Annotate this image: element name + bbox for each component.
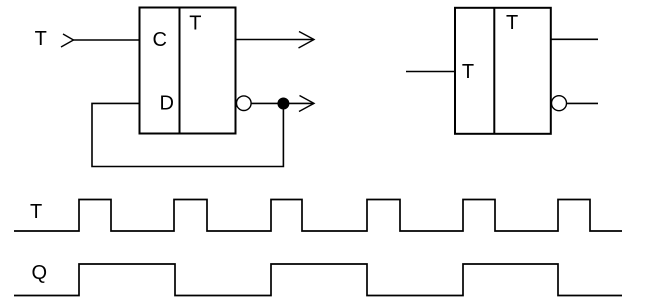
wire Qbar output of U1	[251, 102, 314, 104]
wire U2 T input	[406, 71, 455, 73]
wire U2 Q output	[551, 38, 598, 40]
svg-text:T: T	[35, 28, 47, 50]
svg-text:Q: Q	[32, 262, 48, 284]
svg-text:D: D	[160, 93, 174, 115]
wire Q output of U1	[236, 39, 315, 41]
input arrow chevron at T	[61, 34, 74, 47]
svg-text:T: T	[462, 61, 474, 83]
wire U2 Qbar output	[567, 102, 599, 104]
T clock waveform	[14, 200, 622, 232]
svg-text:T: T	[30, 201, 42, 223]
T flip-flop U2 body	[455, 8, 551, 134]
svg-text:C: C	[153, 29, 167, 51]
junction dot (node feedback)	[277, 98, 289, 110]
inversion bubble on U1 Qbar output	[237, 96, 252, 111]
arrow Qbar output	[299, 96, 314, 112]
svg-text:T: T	[506, 12, 518, 34]
wire T input to C pin	[74, 39, 140, 41]
inversion bubble on U2 Qbar output	[552, 96, 567, 111]
Q output waveform	[14, 264, 622, 296]
feedback wire Qbar to D	[92, 103, 283, 166]
svg-text:T: T	[189, 13, 201, 35]
D flip-flop U1 body	[140, 8, 236, 134]
arrow Q output	[299, 32, 315, 49]
